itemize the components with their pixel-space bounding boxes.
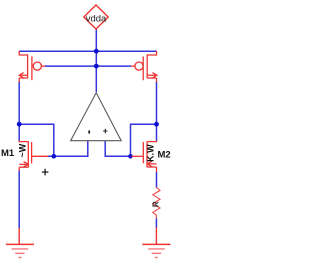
wire M1 gate lead blue part [48, 155, 54, 157]
node junction dot left column [17, 122, 22, 127]
node junction dot M1 gate [52, 154, 57, 159]
svg-text:vdda: vdda [86, 13, 107, 24]
wire M2 source to resistor [156, 172, 158, 188]
resistor R [153, 188, 160, 219]
svg-text:~W: ~W [18, 143, 28, 157]
node junction dot vdda rail [94, 49, 99, 54]
op-amp plus mark [103, 129, 107, 133]
transistor PMOS right (current mirror) [131, 51, 157, 82]
svg-text:M1: M1 [1, 148, 15, 159]
transistor PMOS left (current mirror) [19, 51, 45, 82]
svg-text:R: R [152, 201, 161, 207]
svg-text:M2: M2 [158, 149, 171, 160]
wire right column down [156, 82, 158, 141]
op-amp minus mark [88, 130, 90, 133]
wire gate rail [45, 65, 131, 67]
node junction dot M2 gate [128, 154, 133, 159]
ground left [6, 228, 34, 258]
wire center vertical from vdda to op-amp [95, 29, 97, 92]
op-amp triangle [71, 93, 122, 141]
node junction dot gate rail [94, 64, 99, 69]
node junction dot right column [154, 122, 159, 127]
wire top vdda rail [19, 50, 156, 52]
wire M1 source down to ground [18, 171, 20, 229]
annotation plus sign [42, 169, 49, 176]
transistor M1 (NMOS left) [19, 141, 48, 171]
wire left column down [18, 82, 20, 141]
wire resistor to ground [155, 218, 157, 227]
wire left branch to M1 gate [19, 124, 88, 156]
svg-text:K.W: K.W [145, 144, 155, 162]
wire right branch to M2 gate [105, 124, 156, 156]
power symbol vdda diamond [84, 5, 108, 29]
transistor M2 (NMOS right) [131, 141, 156, 173]
ground right [142, 227, 170, 257]
